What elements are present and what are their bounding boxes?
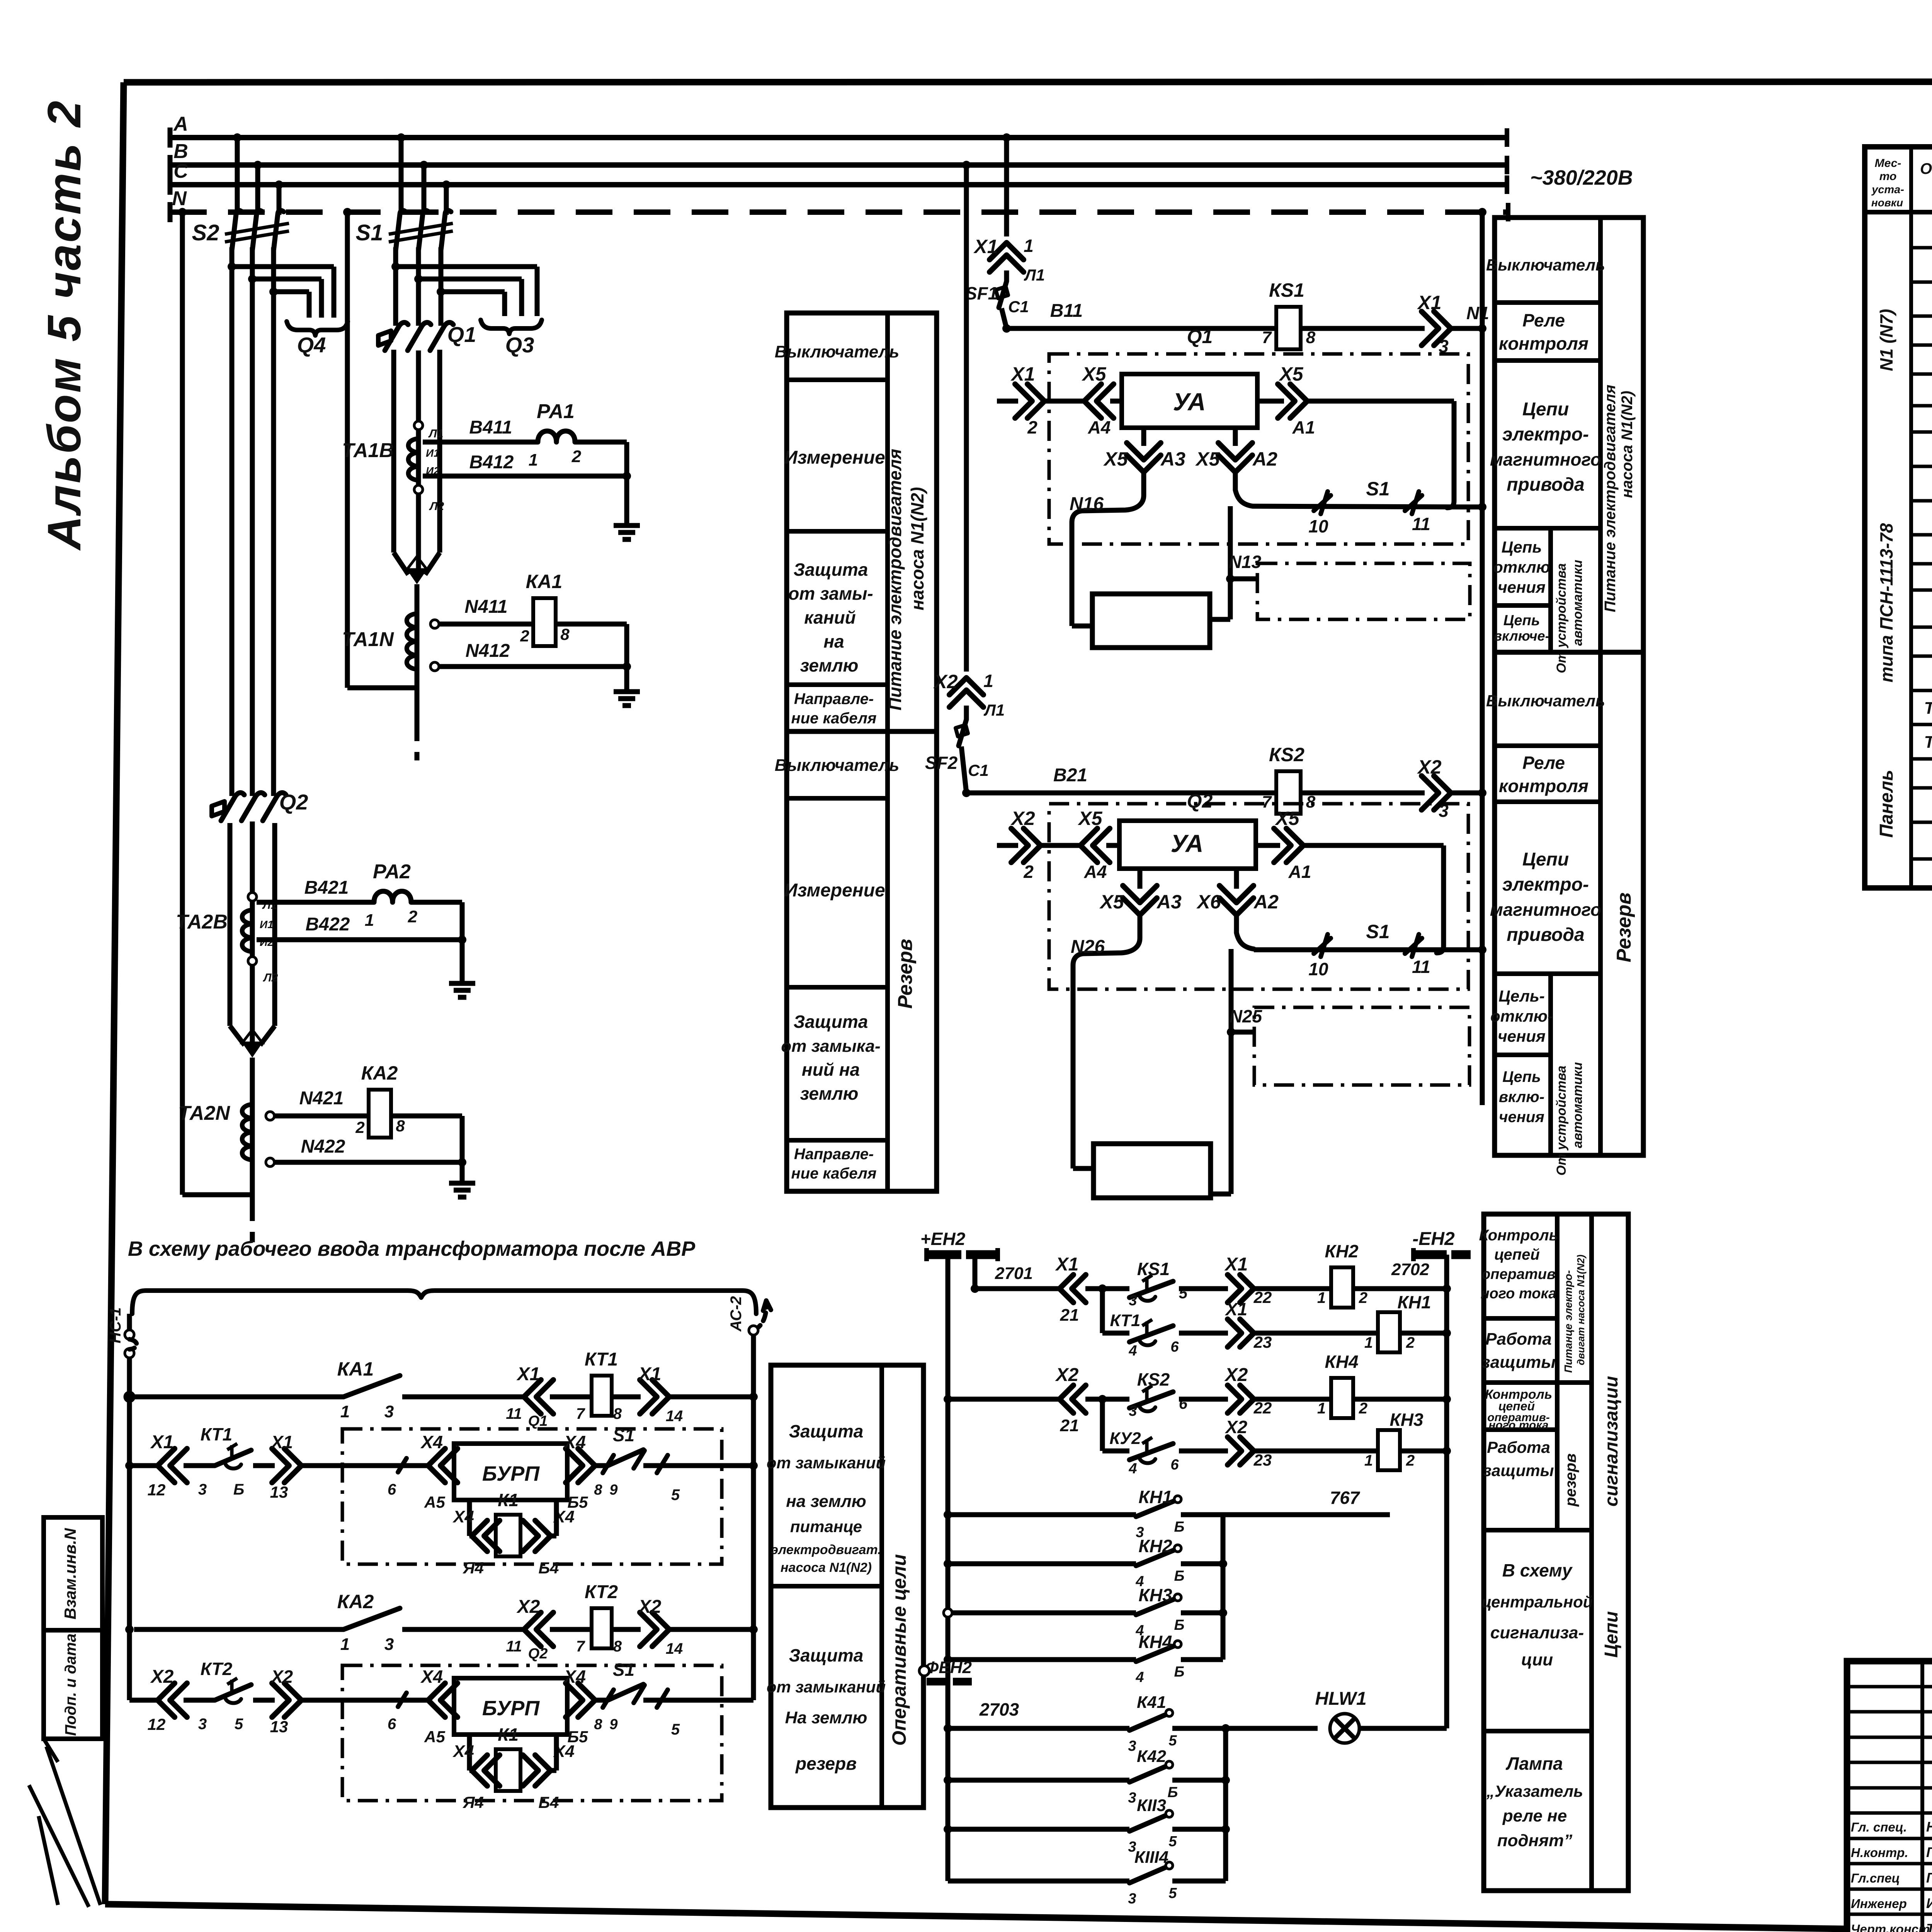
feed rail circuit2 bbox=[962, 161, 971, 169]
svg-text:Л2: Л2 bbox=[263, 971, 278, 984]
svg-text:Цепи: Цепи bbox=[1522, 399, 1569, 420]
wire B411 bbox=[423, 440, 538, 445]
ground TA2B circuit bbox=[449, 981, 475, 986]
signal row4 KT2-KH3 bbox=[1100, 1399, 1105, 1451]
node N16 bbox=[1072, 495, 1144, 522]
breaker Q3 tap bbox=[391, 262, 400, 271]
svg-text:14: 14 bbox=[666, 1640, 683, 1657]
svg-text:сигнализации: сигнализации bbox=[1601, 1376, 1622, 1507]
svg-text:X1: X1 bbox=[638, 1364, 662, 1384]
connector X4 pinA5 b2 bbox=[440, 1683, 457, 1717]
svg-text:3: 3 bbox=[1128, 1790, 1136, 1806]
cable continuation TA2 bbox=[250, 1206, 255, 1242]
svg-text:РА1: РА1 bbox=[537, 400, 575, 423]
svg-text:14: 14 bbox=[666, 1408, 683, 1425]
svg-text:10: 10 bbox=[1308, 959, 1328, 979]
solenoid YA2 bbox=[1119, 821, 1256, 869]
svg-text:N411: N411 bbox=[464, 597, 507, 617]
svg-text:РА2: РА2 bbox=[373, 861, 411, 883]
svg-text:X1: X1 bbox=[270, 1432, 293, 1452]
svg-text:УА: УА bbox=[1171, 830, 1204, 857]
svg-text:И1: И1 bbox=[426, 447, 440, 459]
svg-text:отклю-: отклю- bbox=[1490, 1007, 1553, 1025]
svg-text:АС-2: АС-2 bbox=[728, 1296, 745, 1332]
svg-text:Q3: Q3 bbox=[505, 333, 534, 357]
svg-text:Работа: Работа bbox=[1487, 1438, 1550, 1456]
signal row2 KT1-KH1 bbox=[1100, 1289, 1105, 1333]
label column reserve bbox=[787, 731, 937, 1191]
svg-text:Я4: Я4 bbox=[463, 1559, 484, 1577]
wire N421 bbox=[274, 1114, 369, 1119]
svg-text:Л2: Л2 bbox=[429, 500, 444, 513]
svg-text:N25: N25 bbox=[1230, 1006, 1263, 1026]
svg-text:ний на: ний на bbox=[802, 1060, 860, 1080]
connector X5 pinA4 bbox=[1097, 384, 1114, 418]
svg-text:23: 23 bbox=[1253, 1333, 1272, 1351]
svg-text:N: N bbox=[172, 187, 187, 210]
svg-text:В421: В421 bbox=[304, 878, 349, 898]
svg-text:13: 13 bbox=[270, 1718, 288, 1736]
connector X5 pinA2 down bbox=[1233, 428, 1238, 446]
svg-text:N1 (N7): N1 (N7) bbox=[1876, 309, 1896, 371]
svg-text:21: 21 bbox=[1060, 1416, 1079, 1435]
ground TA1B circuit bbox=[614, 523, 640, 528]
svg-text:5: 5 bbox=[1168, 1833, 1177, 1850]
collector lower rows bbox=[1223, 1728, 1228, 1881]
current transformer TA1B bbox=[391, 350, 396, 553]
svg-text:8: 8 bbox=[560, 625, 570, 643]
connector X2 pin1 bbox=[949, 690, 983, 707]
cable continuation TA1 bbox=[415, 726, 420, 760]
relay KH2 coil bbox=[1331, 1267, 1353, 1308]
svg-text:4: 4 bbox=[1128, 1343, 1137, 1359]
svg-text:X1: X1 bbox=[1055, 1254, 1079, 1275]
connector X5 pinA1 bbox=[1278, 384, 1295, 418]
svg-text:X2: X2 bbox=[1010, 808, 1035, 829]
triangle junction TA2 bbox=[242, 1043, 262, 1058]
time contact KT2 bbox=[201, 1698, 215, 1703]
svg-text:БУРП: БУРП bbox=[482, 1462, 540, 1485]
svg-text:Цепи: Цепи bbox=[1601, 1611, 1622, 1658]
svg-text:1: 1 bbox=[529, 451, 538, 469]
svg-text:X4: X4 bbox=[420, 1432, 443, 1452]
svg-text:Направле-: Направле- bbox=[794, 690, 874, 707]
svg-text:УА: УА bbox=[1173, 388, 1206, 416]
svg-text:3: 3 bbox=[198, 1481, 207, 1498]
switch S1 contact c1 bbox=[1235, 490, 1253, 506]
svg-text:В21: В21 bbox=[1053, 765, 1087, 786]
svg-text:Х5: Х5 bbox=[1195, 448, 1220, 470]
svg-text:Цепь: Цепь bbox=[1502, 1068, 1541, 1085]
svg-text:Выключатель: Выключатель bbox=[1486, 692, 1605, 710]
svg-text:от замыканий: от замыканий bbox=[767, 1678, 886, 1696]
svg-text:Обозначение: Обозначение bbox=[1920, 160, 1932, 177]
svg-text:землю: землю bbox=[800, 1083, 859, 1104]
svg-text:Горелик: Горелик bbox=[1926, 1870, 1932, 1886]
connector X2 pin2 bbox=[997, 843, 1018, 848]
cable box trip circuit1 bbox=[1257, 563, 1470, 619]
svg-text:X1: X1 bbox=[1010, 363, 1035, 385]
contact KH4 row bbox=[944, 1655, 952, 1664]
svg-text:Б: Б bbox=[1174, 1568, 1185, 1584]
svg-text:реле не: реле не bbox=[1502, 1806, 1567, 1825]
svg-text:БУРП: БУРП bbox=[482, 1697, 540, 1720]
time contact KT1 bbox=[201, 1463, 215, 1468]
current transformer TA2B bbox=[228, 823, 233, 1026]
svg-text:КН4: КН4 bbox=[1138, 1632, 1172, 1652]
svg-text:А1: А1 bbox=[1292, 417, 1315, 437]
svg-text:X5: X5 bbox=[1081, 363, 1106, 385]
svg-text:то: то bbox=[1879, 170, 1897, 183]
svg-text:Инженер: Инженер bbox=[1851, 1896, 1907, 1911]
svg-text:6: 6 bbox=[388, 1481, 396, 1498]
svg-text:X4: X4 bbox=[452, 1742, 474, 1761]
svg-text:1: 1 bbox=[1317, 1400, 1326, 1417]
svg-text:ние кабеля: ние кабеля bbox=[791, 710, 877, 727]
svg-text:ции: ции bbox=[1521, 1650, 1553, 1669]
svg-text:2: 2 bbox=[1027, 417, 1037, 437]
svg-text:Х6: Х6 bbox=[1196, 891, 1221, 913]
svg-text:Питание электродвигателя: Питание электродвигателя bbox=[1602, 385, 1619, 612]
svg-text:N412: N412 bbox=[466, 641, 510, 661]
svg-text:уста-: уста- bbox=[1871, 184, 1904, 196]
svg-text:X1: X1 bbox=[516, 1364, 540, 1384]
svg-text:8: 8 bbox=[613, 1638, 622, 1655]
svg-text:электродвигат.: электродвигат. bbox=[771, 1543, 881, 1557]
left margin box Подп. и дата bbox=[44, 1630, 102, 1739]
svg-text:отклю: отклю bbox=[1493, 558, 1550, 576]
svg-text:12: 12 bbox=[148, 1481, 166, 1499]
svg-text:+ЕН2: +ЕН2 bbox=[920, 1229, 966, 1249]
svg-text:КТ2: КТ2 bbox=[201, 1659, 233, 1679]
svg-text:4: 4 bbox=[1135, 1669, 1144, 1685]
svg-text:ТА1В: ТА1В bbox=[342, 439, 394, 462]
connector X4 pinB5 bbox=[567, 1463, 570, 1468]
connector X5 pinA3 down c2 bbox=[1138, 869, 1143, 889]
node N25 bbox=[1229, 949, 1234, 1032]
svg-text:Л1: Л1 bbox=[983, 701, 1005, 719]
svg-text:X2: X2 bbox=[150, 1667, 174, 1687]
svg-text:поднят”: поднят” bbox=[1497, 1831, 1573, 1850]
svg-text:А: А bbox=[173, 113, 188, 135]
label column motor feed N1 bbox=[787, 313, 937, 731]
svg-text:КS1: КS1 bbox=[1269, 279, 1304, 301]
unit BURP2 bbox=[454, 1678, 567, 1735]
connector X5 pinA3 down bbox=[1141, 428, 1146, 446]
svg-text:Q4: Q4 bbox=[297, 333, 326, 357]
svg-text:13: 13 bbox=[270, 1483, 288, 1501]
svg-text:КТ1: КТ1 bbox=[1110, 1311, 1141, 1330]
svg-text:X1: X1 bbox=[150, 1432, 174, 1452]
breaker Q1 bbox=[378, 331, 391, 345]
svg-text:Q2: Q2 bbox=[279, 790, 308, 814]
svg-text:Выключатель: Выключатель bbox=[1486, 256, 1605, 274]
svg-text:привода: привода bbox=[1507, 925, 1584, 945]
svg-text:X2: X2 bbox=[1225, 1417, 1248, 1437]
svg-text:землю: землю bbox=[800, 655, 859, 675]
relay KS2 coil bbox=[1276, 771, 1301, 814]
svg-text:А5: А5 bbox=[424, 1728, 445, 1746]
svg-text:Работа: Работа bbox=[1485, 1330, 1552, 1349]
svg-text:Реле: Реле bbox=[1522, 310, 1565, 330]
svg-text:чения: чения bbox=[1498, 1027, 1546, 1045]
svg-text:ТА2В: ТА2В bbox=[176, 911, 228, 933]
svg-text:А3: А3 bbox=[1160, 448, 1185, 470]
ground TA1N circuit bbox=[614, 689, 640, 694]
svg-text:~380/220В: ~380/220В bbox=[1530, 166, 1633, 189]
svg-text:X2: X2 bbox=[270, 1667, 293, 1687]
svg-text:X1: X1 bbox=[1225, 1299, 1247, 1319]
svg-text:КН1: КН1 bbox=[1138, 1487, 1172, 1507]
connector X1 pin1 bbox=[990, 255, 1024, 272]
svg-text:2702: 2702 bbox=[1391, 1260, 1429, 1279]
svg-text:Я4: Я4 bbox=[463, 1793, 484, 1811]
svg-text:включе-: включе- bbox=[1493, 628, 1549, 644]
svg-text:Q1: Q1 bbox=[447, 322, 476, 347]
svg-text:X1: X1 bbox=[973, 236, 998, 257]
svg-text:S1: S1 bbox=[1366, 921, 1389, 942]
svg-text:А1: А1 bbox=[1288, 862, 1311, 882]
connector X1 pin14 bbox=[640, 1380, 657, 1414]
svg-text:на: на bbox=[823, 631, 844, 651]
svg-text:11: 11 bbox=[1412, 514, 1430, 534]
svg-text:насоса N1(N2): насоса N1(N2) bbox=[907, 487, 927, 610]
svg-text:С1: С1 bbox=[968, 761, 989, 779]
svg-text:НС-1: НС-1 bbox=[107, 1307, 124, 1343]
breaker Q4 tap bbox=[228, 262, 236, 271]
triangle junction TA1 bbox=[407, 570, 427, 584]
svg-text:5: 5 bbox=[235, 1716, 243, 1733]
svg-text:Б4: Б4 bbox=[538, 1559, 559, 1577]
svg-text:КS1: КS1 bbox=[1137, 1259, 1170, 1279]
svg-text:X4: X4 bbox=[563, 1667, 586, 1687]
svg-text:А3: А3 bbox=[1156, 891, 1182, 913]
svg-text:Выключатель: Выключатель bbox=[775, 756, 900, 775]
svg-text:А4: А4 bbox=[1084, 862, 1107, 882]
svg-text:S1: S1 bbox=[356, 220, 383, 245]
svg-text:3: 3 bbox=[1129, 1403, 1137, 1419]
wire N411 bbox=[439, 622, 533, 627]
svg-text:от замыканий: от замыканий bbox=[767, 1454, 886, 1472]
svg-text:N16: N16 bbox=[1070, 494, 1104, 514]
svg-text:2: 2 bbox=[1023, 862, 1034, 882]
svg-text:X2: X2 bbox=[933, 671, 957, 692]
svg-text:К41: К41 bbox=[1137, 1693, 1166, 1712]
wire B422 bbox=[257, 937, 462, 942]
svg-text:КS2: КS2 bbox=[1269, 744, 1304, 765]
svg-text:вклю-: вклю- bbox=[1499, 1088, 1544, 1105]
cable box trip circuit2 bbox=[1254, 1007, 1469, 1085]
svg-text:S1: S1 bbox=[613, 1425, 634, 1445]
svg-text:типа ПСН-1113-78: типа ПСН-1113-78 bbox=[1876, 523, 1896, 682]
switch S1 bbox=[397, 133, 405, 142]
svg-text:Гл. спец.: Гл. спец. bbox=[1851, 1820, 1907, 1834]
bus N bbox=[170, 209, 1508, 215]
left rail lower circuit bbox=[127, 1399, 132, 1700]
svg-text:С1: С1 bbox=[1008, 298, 1029, 316]
svg-text:К1: К1 bbox=[498, 1725, 519, 1745]
svg-text:Цепь: Цепь bbox=[1502, 538, 1542, 556]
svg-text:9: 9 bbox=[609, 1482, 617, 1498]
svg-text:N26: N26 bbox=[1071, 937, 1105, 957]
svg-text:КА2: КА2 bbox=[337, 1591, 374, 1612]
svg-text:Никитин: Никитин bbox=[1926, 1819, 1932, 1835]
svg-text:электро-: электро- bbox=[1502, 424, 1589, 445]
svg-text:8: 8 bbox=[396, 1117, 405, 1135]
svg-text:КН3: КН3 bbox=[1389, 1410, 1423, 1430]
svg-text:Реле: Реле bbox=[1522, 753, 1565, 773]
svg-text:Измерение: Измерение bbox=[784, 447, 885, 468]
connector X1 pin11-14 row KA1 bbox=[536, 1380, 553, 1414]
current transformer TA1N bbox=[415, 584, 420, 726]
unit BURP1 bbox=[453, 1463, 454, 1468]
switch S1 contact row4 bbox=[602, 1684, 643, 1700]
svg-text:двигат насоса N1(N2): двигат насоса N1(N2) bbox=[1575, 1255, 1587, 1365]
svg-text:привода: привода bbox=[1507, 474, 1584, 495]
svg-text:SF2: SF2 bbox=[925, 753, 958, 773]
relay K1 branch2 bbox=[467, 1735, 472, 1770]
svg-text:Б4: Б4 bbox=[538, 1793, 559, 1811]
left margin box Взам.инв.N bbox=[44, 1517, 102, 1630]
svg-text:каний: каний bbox=[804, 607, 855, 628]
contact KT1 signal bbox=[1129, 1326, 1173, 1342]
svg-text:1: 1 bbox=[1024, 236, 1034, 256]
svg-text:Взам.инв.N: Взам.инв.N bbox=[61, 1527, 79, 1619]
breaker Q2 bbox=[212, 801, 224, 816]
connector X2 pin11 row KA2 bbox=[536, 1612, 553, 1646]
svg-text:6: 6 bbox=[388, 1716, 396, 1733]
aux box Q1 dash-dot bbox=[1049, 354, 1468, 544]
contact K41 bbox=[1129, 1714, 1166, 1730]
svg-text:23: 23 bbox=[1253, 1451, 1272, 1469]
ammeter PA2 bbox=[374, 891, 411, 903]
svg-text:2: 2 bbox=[1359, 1400, 1367, 1417]
connector X4 pinB5 b2 bbox=[566, 1683, 583, 1717]
svg-text:2: 2 bbox=[520, 627, 529, 645]
node N26 bbox=[1073, 938, 1140, 965]
svg-text:Выключатель: Выключатель bbox=[775, 342, 900, 361]
svg-text:насоса N1(N2): насоса N1(N2) bbox=[781, 1560, 872, 1575]
node N13 bbox=[1228, 506, 1233, 579]
svg-text:От устройства: От устройства bbox=[1554, 563, 1569, 673]
svg-text:X2: X2 bbox=[516, 1597, 540, 1617]
relay KH3 coil bbox=[1378, 1430, 1400, 1470]
svg-text:Альбом 5 часть 2: Альбом 5 часть 2 bbox=[38, 99, 90, 551]
switch S1 contact c2 bbox=[1236, 933, 1254, 949]
svg-text:магнитного: магнитного bbox=[1490, 449, 1601, 469]
svg-text:Н.контр.: Н.контр. bbox=[1851, 1845, 1908, 1860]
svg-text:8: 8 bbox=[594, 1716, 602, 1733]
ground TA2N circuit bbox=[449, 1181, 475, 1186]
svg-text:8: 8 bbox=[594, 1482, 602, 1498]
svg-text:Резерв: Резерв bbox=[894, 939, 917, 1009]
svg-text:1: 1 bbox=[1364, 1334, 1373, 1351]
svg-text:1: 1 bbox=[1364, 1452, 1373, 1469]
svg-text:защиты: защиты bbox=[1483, 1461, 1554, 1480]
node B21-rail bbox=[1478, 789, 1486, 797]
svg-text:чения: чения bbox=[1498, 578, 1546, 596]
svg-text:На землю: На землю bbox=[785, 1708, 867, 1727]
svg-text:В412: В412 bbox=[469, 452, 514, 473]
svg-text:резерв: резерв bbox=[1562, 1453, 1579, 1507]
bus A bbox=[170, 135, 1507, 140]
svg-text:21: 21 bbox=[1060, 1306, 1079, 1325]
relay contact KA2 row bbox=[125, 1625, 134, 1634]
svg-text:5: 5 bbox=[1168, 1733, 1177, 1749]
contact KS2 bbox=[1102, 1397, 1129, 1402]
switch S1 contact row2 bbox=[602, 1450, 643, 1466]
svg-text:X2: X2 bbox=[638, 1597, 662, 1617]
label column signaling bbox=[1484, 1214, 1628, 1891]
contact KH3 row bbox=[944, 1609, 952, 1617]
svg-text:4: 4 bbox=[1128, 1461, 1137, 1477]
time relay KT2 coil bbox=[592, 1608, 612, 1648]
svg-text:X5: X5 bbox=[1077, 808, 1102, 829]
svg-text:КН1: КН1 bbox=[1397, 1292, 1431, 1312]
relay KS1 coil bbox=[1276, 307, 1301, 349]
cable box close circuit2 bbox=[1094, 1144, 1211, 1198]
svg-text:чения: чения bbox=[1499, 1109, 1544, 1126]
relay KH1 coil bbox=[1378, 1312, 1400, 1352]
svg-text:2: 2 bbox=[571, 447, 582, 466]
svg-text:X5: X5 bbox=[1274, 808, 1299, 829]
contact KH1 row bbox=[944, 1510, 952, 1519]
svg-text:Б: Б bbox=[1168, 1784, 1178, 1801]
svg-text:6: 6 bbox=[1170, 1457, 1179, 1473]
svg-text:КА2: КА2 bbox=[361, 1062, 398, 1084]
svg-text:на землю: на землю bbox=[786, 1492, 866, 1511]
svg-text:7: 7 bbox=[576, 1638, 585, 1655]
signal row1 KS1-KH2 bbox=[975, 1286, 1058, 1291]
svg-text:КТ1: КТ1 bbox=[585, 1349, 618, 1370]
svg-text:КУ2: КУ2 bbox=[1109, 1429, 1141, 1448]
signal row3 KS2-KH4 bbox=[944, 1395, 952, 1403]
svg-text:Гл.спец: Гл.спец bbox=[1851, 1871, 1900, 1885]
svg-text:ного тока: ного тока bbox=[1481, 1286, 1557, 1302]
svg-text:1: 1 bbox=[365, 911, 374, 930]
relay KA2 bbox=[369, 1090, 391, 1138]
svg-text:3: 3 bbox=[384, 1635, 394, 1654]
contact KT2 signal bbox=[1129, 1444, 1173, 1460]
svg-text:7: 7 bbox=[576, 1405, 585, 1422]
svg-text:от замы-: от замы- bbox=[788, 583, 873, 604]
connector X1 pin2 bbox=[997, 399, 1018, 404]
svg-text:КS2: КS2 bbox=[1137, 1369, 1170, 1389]
svg-text:оператив: оператив bbox=[1481, 1266, 1556, 1282]
svg-text:Б: Б bbox=[1174, 1617, 1185, 1633]
relay contact KA1 row bbox=[125, 1393, 134, 1401]
svg-text:S1: S1 bbox=[1366, 478, 1389, 500]
wire B21 bbox=[962, 789, 971, 797]
svg-text:КТ2: КТ2 bbox=[585, 1582, 618, 1602]
feed rail circuit1 bbox=[1002, 133, 1011, 142]
svg-text:5: 5 bbox=[671, 1486, 680, 1503]
svg-text:Б: Б bbox=[1174, 1664, 1185, 1680]
label column ground fault protection bbox=[771, 1365, 923, 1808]
svg-text:Резерв: Резерв bbox=[1613, 893, 1635, 963]
svg-text:Измерение: Измерение bbox=[784, 880, 885, 901]
neutral drop circuit2 bbox=[178, 208, 187, 216]
svg-text:А2: А2 bbox=[1252, 448, 1277, 470]
wire 767 bbox=[1223, 1512, 1390, 1517]
rail lower segment bbox=[1480, 212, 1485, 1105]
wire B11 bbox=[1002, 324, 1011, 333]
svg-text:ТА1В;ТА2В: ТА1В;ТА2В bbox=[1924, 699, 1932, 718]
svg-text:2: 2 bbox=[1406, 1334, 1415, 1351]
connector X4 pinA5 bbox=[440, 1449, 457, 1483]
svg-text:КА1: КА1 bbox=[526, 571, 563, 592]
relay KH4 coil bbox=[1331, 1378, 1353, 1418]
